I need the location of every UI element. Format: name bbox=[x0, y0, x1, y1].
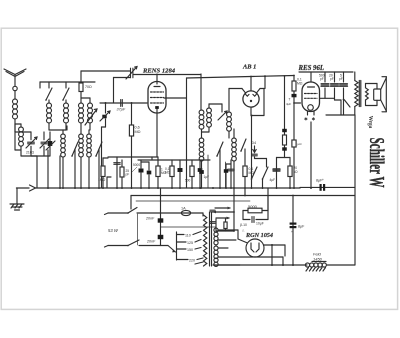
pickup cap b bbox=[210, 221, 215, 223]
svg-text:37pF: 37pF bbox=[117, 108, 126, 112]
wire bbox=[14, 91, 16, 99]
wire bbox=[39, 82, 41, 88]
svg-text:pF: pF bbox=[330, 77, 334, 81]
resistor 70 Ohm bbox=[80, 71, 82, 83]
screen feed wire bbox=[284, 76, 286, 156]
wire bbox=[300, 186, 355, 188]
switch gang link bbox=[137, 214, 139, 245]
svg-text:✱: ✱ bbox=[312, 117, 316, 122]
antenna bbox=[14, 75, 16, 86]
wire bbox=[354, 115, 356, 265]
coupling blob capacitor bbox=[139, 169, 144, 173]
electrolytic 4uF bbox=[276, 158, 278, 189]
switch bbox=[241, 139, 246, 151]
IF coil bbox=[232, 138, 237, 143]
svg-text:4μF: 4μF bbox=[270, 178, 276, 182]
svg-text:MΩ: MΩ bbox=[135, 130, 141, 134]
tube AB1 envelope bbox=[243, 91, 259, 107]
svg-text:1A: 1A bbox=[181, 207, 186, 211]
wire bbox=[186, 78, 188, 188]
voltage selector arm bbox=[168, 246, 176, 253]
tone capacitor 5pF bbox=[343, 72, 345, 82]
power transformer HV secondary bbox=[214, 228, 218, 232]
svg-text:5000: 5000 bbox=[133, 163, 140, 167]
svg-text:β-10: β-10 bbox=[240, 223, 247, 227]
tuning coil L3 bbox=[48, 100, 50, 103]
svg-text:4μF: 4μF bbox=[286, 102, 291, 106]
resistor bbox=[156, 166, 160, 177]
mains lead upper bbox=[105, 213, 109, 215]
output transformer core bbox=[358, 81, 360, 107]
power transformer core bbox=[209, 212, 211, 266]
speaker cone bbox=[381, 78, 387, 90]
wire bbox=[264, 76, 266, 88]
capacitor bbox=[230, 160, 232, 188]
mains switch lower bbox=[128, 240, 139, 246]
smoothing cap 10uF bbox=[243, 219, 250, 221]
resistor bbox=[170, 166, 174, 177]
output transformer secondary bbox=[366, 88, 369, 100]
wire bbox=[237, 230, 239, 239]
svg-text:✱: ✱ bbox=[304, 117, 308, 122]
decoupling capacitor 8uF bbox=[320, 184, 322, 191]
wire bbox=[20, 150, 22, 156]
svg-text:500: 500 bbox=[185, 179, 191, 183]
pickup resistor bbox=[215, 219, 217, 231]
tube AB1 leads bbox=[229, 88, 242, 90]
voltage selector rail bbox=[176, 232, 178, 260]
bottom rail bbox=[213, 264, 307, 266]
variable capacitor C1 bbox=[28, 141, 35, 143]
resistor 20k bbox=[288, 166, 292, 177]
trimmer capacitor bbox=[102, 115, 106, 119]
antenna coil L1 bbox=[13, 99, 18, 104]
tube RES96L envelope bbox=[302, 82, 320, 112]
IF coil bbox=[199, 138, 204, 143]
ground symbol bbox=[16, 188, 18, 204]
antenna lead-in loop bbox=[13, 86, 17, 90]
coil L7 bbox=[62, 130, 64, 134]
tone switch bbox=[344, 99, 345, 102]
grid wire bbox=[294, 102, 301, 104]
field coil winding bbox=[305, 263, 309, 267]
wire bbox=[14, 119, 16, 132]
IF coil bbox=[207, 108, 212, 113]
wire bbox=[100, 102, 147, 104]
IF coil bbox=[228, 89, 230, 113]
wire bbox=[138, 159, 210, 161]
power transformer mid secondary bbox=[214, 246, 218, 250]
wire bbox=[187, 76, 295, 79]
pickup network vertical bbox=[233, 188, 235, 231]
svg-text:20nF: 20nF bbox=[146, 240, 156, 244]
pickup arrow a bbox=[215, 207, 230, 209]
wire bbox=[326, 114, 355, 116]
band switch S1a bbox=[46, 88, 52, 100]
rectifier tube RGN1054 bbox=[246, 239, 264, 257]
wire bbox=[106, 177, 108, 188]
svg-text:Schiller W: Schiller W bbox=[365, 138, 389, 188]
band switch S1c bbox=[72, 142, 78, 156]
svg-text:RES 96L: RES 96L bbox=[298, 65, 325, 72]
screen resistor 0.6M bbox=[131, 103, 133, 125]
coupling coil L2 bbox=[14, 124, 16, 132]
svg-text:1MΩ: 1MΩ bbox=[98, 178, 106, 182]
svg-text:53 W: 53 W bbox=[108, 228, 119, 233]
smoothing network 5000 bbox=[242, 211, 244, 220]
svg-text:10μF: 10μF bbox=[256, 222, 264, 226]
grid resistor bbox=[120, 167, 124, 177]
output transformer primary bbox=[354, 72, 356, 81]
line filter cap 20nF lower bbox=[158, 235, 164, 239]
wire bbox=[299, 71, 322, 73]
grid cap trimmer bbox=[130, 68, 132, 78]
band switch S1b bbox=[63, 88, 69, 100]
svg-text:AB 1: AB 1 bbox=[242, 64, 256, 71]
coil L8 bbox=[80, 130, 82, 134]
wire bbox=[191, 212, 203, 214]
routing wire bbox=[136, 200, 250, 202]
coupling capacitor 37pF bbox=[120, 100, 122, 107]
fuse 1A bbox=[181, 210, 190, 215]
svg-text:D4: D4 bbox=[252, 141, 257, 145]
grid wire output bbox=[320, 97, 335, 99]
cathode resistor bbox=[101, 166, 105, 177]
svg-text:pF: pF bbox=[339, 77, 343, 81]
switch bbox=[217, 142, 223, 156]
mains switch upper bbox=[128, 208, 137, 214]
svg-text:+: + bbox=[291, 230, 293, 234]
tube RENS1284 electrodes bbox=[156, 74, 158, 84]
wire bbox=[133, 74, 201, 76]
junction dots psu bbox=[292, 264, 294, 266]
tuning coil L4 bbox=[65, 100, 67, 103]
band switch S1d bbox=[96, 142, 102, 156]
tube RES96L electrodes bbox=[310, 72, 312, 82]
svg-text:125: 125 bbox=[187, 241, 193, 245]
resistor bbox=[190, 166, 194, 177]
tone capacitor 2000pF bbox=[334, 72, 336, 82]
mains lead lower bbox=[105, 246, 109, 248]
pickup arrow b bbox=[213, 211, 235, 213]
svg-text:1450: 1450 bbox=[313, 257, 323, 262]
tuning coil L6 bbox=[88, 103, 93, 108]
svg-text:pF: pF bbox=[320, 77, 324, 81]
wire bbox=[264, 244, 285, 246]
svg-text:T: T bbox=[289, 98, 291, 102]
wire bbox=[334, 88, 336, 100]
wire bbox=[255, 158, 267, 160]
tube RENS1284 envelope bbox=[148, 82, 166, 114]
pickup cap a bbox=[210, 209, 215, 211]
trimmer capacitor bbox=[41, 141, 47, 143]
mains tap 110 bbox=[177, 234, 185, 236]
svg-text:Wega: Wega bbox=[367, 116, 373, 129]
svg-text:RGN 1054: RGN 1054 bbox=[245, 232, 273, 239]
svg-text:20nF: 20nF bbox=[145, 217, 155, 221]
IF coil bbox=[200, 74, 202, 110]
wire bbox=[66, 126, 68, 130]
svg-text:pF: pF bbox=[126, 173, 130, 177]
tone capacitor 500pF bbox=[324, 72, 326, 82]
tuning coil L5 bbox=[79, 103, 84, 108]
wire bbox=[49, 129, 66, 131]
wire bbox=[48, 82, 50, 88]
svg-text:MΩ: MΩ bbox=[165, 171, 171, 175]
mains tap 150 bbox=[177, 248, 187, 250]
variable arrow bbox=[218, 111, 227, 120]
svg-text:110: 110 bbox=[185, 233, 191, 237]
tube AB1 electrodes bbox=[250, 77, 252, 92]
rectifier electrodes bbox=[251, 243, 254, 252]
coil L9 bbox=[87, 134, 92, 139]
line filter cap 20nF upper bbox=[160, 188, 162, 246]
junction dots bbox=[47, 187, 49, 189]
blob capacitor bbox=[147, 171, 152, 175]
svg-text:8μF: 8μF bbox=[298, 225, 305, 229]
mains tap 125 bbox=[177, 241, 187, 243]
wire bbox=[59, 156, 61, 188]
svg-text:+: + bbox=[322, 178, 324, 182]
svg-text:5000: 5000 bbox=[248, 204, 258, 209]
svg-text:MΩ: MΩ bbox=[297, 82, 303, 86]
ground bus bbox=[17, 187, 301, 189]
padding capacitor bbox=[48, 141, 53, 146]
wire bbox=[267, 188, 269, 211]
svg-text:220: 220 bbox=[189, 258, 195, 262]
wire bbox=[40, 81, 95, 83]
switch pair bbox=[252, 167, 258, 179]
svg-text:150: 150 bbox=[187, 248, 193, 252]
speaker magnet bbox=[366, 83, 378, 85]
power transformer heater secondary bbox=[214, 258, 218, 262]
blob capacitor bbox=[178, 168, 183, 172]
svg-text:21kΩ: 21kΩ bbox=[26, 151, 34, 155]
power transformer primary bbox=[204, 215, 207, 266]
filter cap 8uF bbox=[292, 196, 294, 266]
bypass capacitor bbox=[116, 157, 118, 188]
blob capacitor bbox=[198, 168, 203, 172]
wire bbox=[271, 245, 273, 265]
grid return wire bbox=[164, 97, 187, 99]
mains tap 220 bbox=[177, 259, 189, 261]
coupling cap bbox=[292, 94, 297, 97]
svg-text:RENS 1284: RENS 1284 bbox=[142, 68, 176, 75]
wire bbox=[47, 150, 49, 188]
routing wire bbox=[131, 195, 355, 197]
wire bbox=[310, 122, 312, 188]
grid resistor 0.1M bbox=[293, 76, 295, 82]
wire bbox=[151, 157, 153, 160]
pickup arrow c bbox=[216, 217, 229, 219]
resistor 0.1M bbox=[243, 166, 247, 177]
wire bbox=[250, 107, 252, 115]
svg-text:70Ω: 70Ω bbox=[85, 85, 92, 89]
bus arrow bbox=[30, 185, 36, 191]
